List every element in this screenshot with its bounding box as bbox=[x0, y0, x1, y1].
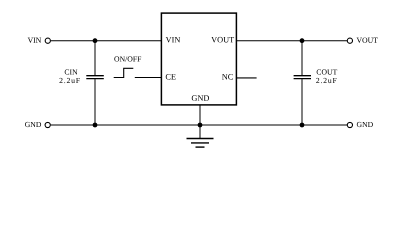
label ON/OFF bbox=[114, 56, 141, 61]
terminal GND right bbox=[347, 122, 373, 128]
value label CIN 2.2uF bbox=[59, 69, 79, 83]
node A : VIN rail / CIN junction bbox=[93, 38, 98, 43]
wire node B to VOUT terminal bbox=[302, 40, 347, 42]
wire GND rail right segment bbox=[200, 124, 302, 126]
ON/OFF step waveform symbol bbox=[114, 68, 134, 77]
node C : GND rail / CIN junction bbox=[93, 123, 98, 128]
wire COUT bottom lead bbox=[301, 79, 303, 125]
pin label VIN bbox=[166, 37, 180, 43]
terminal GND left bbox=[25, 122, 50, 128]
terminal VOUT bbox=[347, 38, 377, 44]
pin label VOUT bbox=[211, 37, 234, 43]
node E : GND rail / COUT junction bbox=[300, 123, 305, 128]
wire node D to ground symbol bbox=[199, 125, 201, 138]
capacitor CIN bbox=[86, 76, 104, 79]
wire ON/OFF to pin CE of U1 bbox=[135, 77, 161, 79]
capacitor COUT bbox=[294, 76, 311, 79]
regulator U1 box bbox=[161, 13, 236, 105]
wire COUT top lead bbox=[301, 41, 303, 75]
wire GND rail left segment bbox=[51, 124, 95, 126]
wire pin VOUT of U1 to node B bbox=[237, 40, 302, 42]
wire CIN bottom lead bbox=[94, 79, 96, 125]
wire pin NC stub bbox=[237, 77, 257, 79]
terminal VIN bbox=[28, 38, 51, 44]
node B : VOUT rail / COUT junction bbox=[300, 38, 305, 43]
wire pin GND of U1 down to rail bbox=[199, 105, 201, 125]
pin label GND bbox=[192, 95, 209, 101]
pin label CE bbox=[166, 74, 176, 80]
ground bbox=[187, 139, 214, 148]
wire CIN top lead bbox=[94, 41, 96, 75]
wire GND rail center segment bbox=[95, 124, 200, 126]
wire GND rail to GND terminal right bbox=[302, 124, 347, 126]
wire VIN terminal to node A bbox=[51, 40, 95, 42]
value label COUT 2.2uF bbox=[316, 69, 337, 83]
wire node A to pin VIN of U1 bbox=[95, 40, 161, 42]
node D : GND rail / ground junction bbox=[198, 123, 203, 128]
pin label NC bbox=[222, 74, 233, 80]
